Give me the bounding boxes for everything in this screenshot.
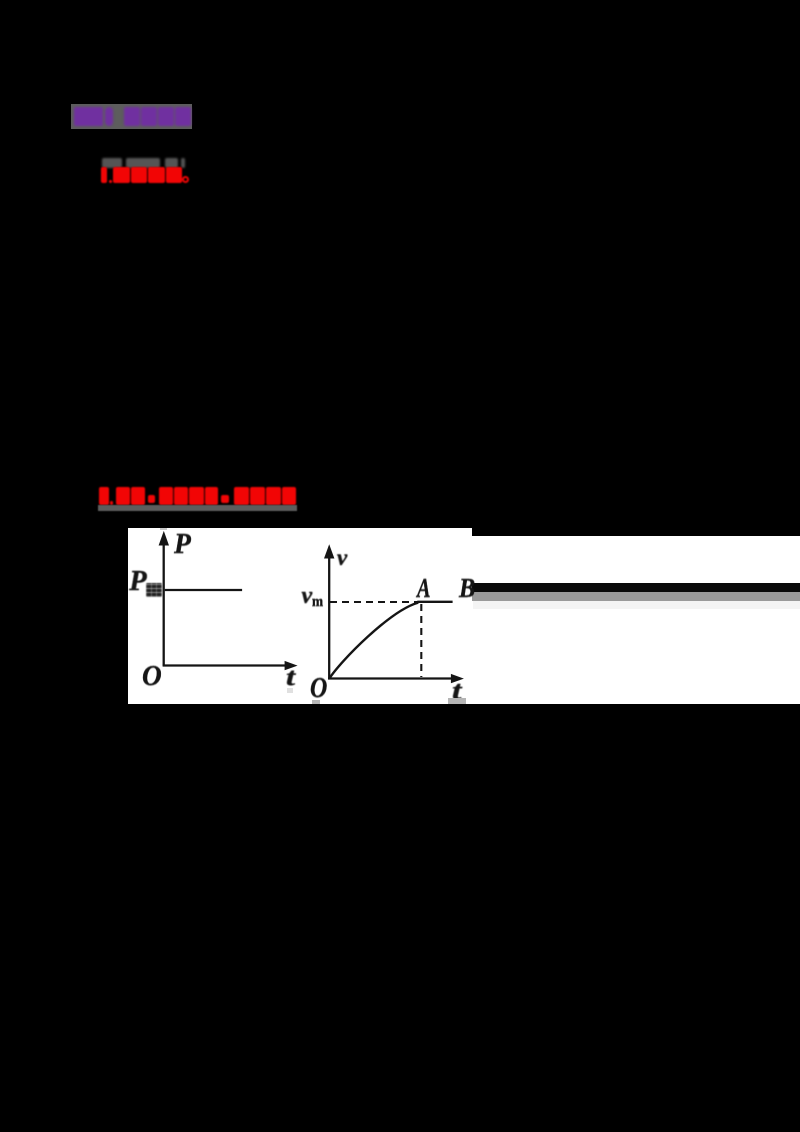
gray mark under O (v-t) [312, 700, 321, 704]
label v_m : v [302, 584, 313, 608]
heading highlight box [71, 104, 192, 129]
label v_m : m subscript [312, 595, 323, 610]
label O (P-t) [142, 662, 162, 691]
P-t graph y-axis [162, 543, 164, 666]
label t (v-t) [452, 678, 461, 704]
P axis arrowhead [158, 531, 168, 546]
label v [337, 546, 347, 569]
label A [417, 575, 431, 602]
dashed line vm level [330, 601, 421, 603]
gray mark under t (v-t) [448, 698, 466, 704]
label P额 : 额 subscript blob [146, 583, 162, 598]
black notch top-right of figure box [472, 528, 800, 536]
red line 2 text blobs [0, 0, 1, 1]
rated power line [164, 589, 241, 591]
v axis arrowhead [324, 544, 334, 558]
dashed line at A [420, 604, 422, 677]
label B [459, 574, 475, 602]
P-t graph x-axis [162, 664, 285, 666]
label P额 : P [129, 568, 146, 597]
faint mark under t (P-t) [287, 688, 294, 693]
white figure box [128, 528, 800, 705]
gray tick above P arrow [160, 528, 167, 530]
light strip under gray bar [473, 601, 800, 609]
label O (v-t) [310, 675, 327, 704]
v-t curve [329, 602, 418, 678]
red line 2 gray underline bar [98, 505, 298, 511]
line A to B [417, 600, 452, 602]
red line 1 text blobs [0, 0, 1, 1]
v-t x-axis arrowhead [451, 674, 464, 683]
P-t x-axis arrowhead [284, 661, 297, 670]
black rule bar right of B [472, 583, 800, 592]
v-t graph y-axis [328, 556, 330, 679]
v-t graph x-axis [328, 677, 452, 679]
label t (P-t) [286, 665, 295, 690]
graphs SVG [128, 528, 800, 705]
red line 1 gray remnants [0, 0, 1, 1]
label P [174, 530, 191, 559]
heading purple text blobs [0, 0, 1, 1]
gray rule bar right of B [472, 592, 800, 601]
